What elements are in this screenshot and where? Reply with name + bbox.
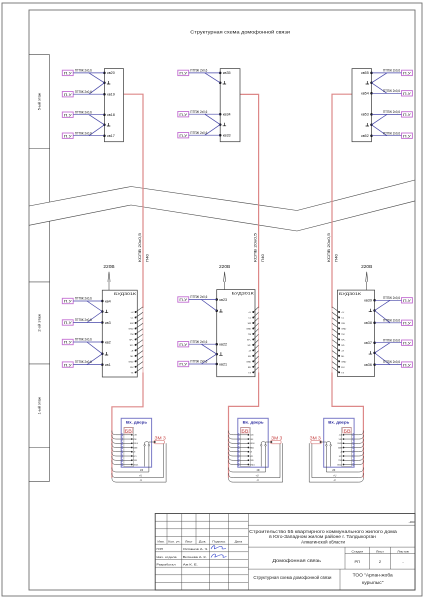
pin CL (252, 317, 254, 319)
wire 220В to БУД (366, 282, 368, 291)
pin MAN (131, 447, 133, 449)
wire П.У to line node (375, 299, 402, 301)
wire hop on box edge (238, 459, 239, 462)
commutation unit БУД301К левый (102, 290, 137, 377)
svg-text:ЗМ 3: ЗМ 3 (271, 435, 283, 440)
wire hop on box edge (353, 438, 354, 441)
wire pin to riser bundle (344, 448, 364, 452)
wire pin to riser bundle (344, 439, 364, 443)
pin SP+ (135, 338, 137, 340)
wire П.У to line node (189, 299, 217, 301)
wire П.У to ground node (89, 83, 104, 94)
svg-text:П.У: П.У (64, 72, 72, 76)
wire pin to riser (253, 345, 258, 350)
svg-text:SSD6: SSD6 (337, 443, 342, 445)
wire П.У to ground node (201, 344, 216, 354)
commutation unit БУД301К правый (337, 290, 374, 376)
wire hop on box edge (238, 442, 239, 445)
wire pin to riser bundle (112, 439, 132, 443)
svg-text:П.У: П.У (64, 134, 72, 138)
node кв37 (373, 341, 376, 344)
wire pin to riser (332, 323, 339, 328)
wire pin to riser (253, 329, 258, 334)
svg-text:Подпись: Подпись (212, 539, 226, 543)
svg-text:П.У: П.У (403, 134, 411, 138)
svg-text:+U: +U (341, 312, 344, 314)
pin TM (135, 333, 137, 335)
apartment terminal box кв33-35 (220, 69, 240, 142)
ground node (373, 309, 376, 312)
svg-text:кв54: кв54 (361, 92, 369, 96)
svg-text:GND: GND (246, 361, 251, 363)
wire hop on box edge (121, 438, 122, 441)
wire П.У to line node (372, 92, 402, 94)
wire П.У to line node (372, 113, 402, 115)
wire pin to riser bundle (229, 456, 249, 460)
wire hop on box edge (238, 463, 239, 466)
wire lock to sensor (149, 441, 155, 443)
pin SP- (135, 344, 137, 346)
svg-text:РП: РП (355, 559, 361, 564)
pin GND1 (343, 464, 345, 466)
svg-text:ПТПЖ 2х0,6: ПТПЖ 2х0,6 (75, 110, 92, 114)
apartment terminal box кв17-20 (104, 69, 123, 142)
svg-text:КСПВ 20х0,5: КСПВ 20х0,5 (254, 233, 258, 262)
pin GND (338, 360, 340, 362)
node кв55 (370, 72, 373, 75)
svg-text:TM: TM (341, 334, 344, 336)
svg-text:П40: П40 (261, 254, 265, 262)
wire pin to riser bundle (112, 431, 132, 435)
wire П.У to ground node (372, 114, 387, 124)
svg-text:П.У: П.У (64, 363, 72, 367)
pin GND (338, 327, 340, 329)
node кв33 (219, 134, 222, 137)
pin VSF (131, 438, 133, 440)
wire hop on box edge (353, 433, 354, 436)
wire pin to riser (332, 340, 339, 345)
svg-text:Лист: Лист (376, 550, 385, 554)
floor column bottom divider 5th floor (29, 148, 50, 150)
svg-text:ПТПЖ 2х0,6: ПТПЖ 2х0,6 (75, 90, 92, 94)
svg-text:GND: GND (129, 328, 134, 330)
pin SSD6 (343, 442, 345, 444)
handset П.У (кв52-55 #2) (402, 91, 413, 96)
svg-text:RU: RU (248, 367, 252, 369)
title block verticals (181, 514, 183, 591)
pin GND (135, 360, 137, 362)
wire П.У to ground node (87, 312, 102, 323)
svg-text:кв37: кв37 (364, 341, 372, 345)
floor column column bottom line (29, 480, 50, 482)
pin SP1 (343, 455, 345, 457)
call unit БВ outline (241, 427, 251, 466)
node кв23 (215, 298, 218, 301)
floor column bottom divider 1st floor (29, 447, 50, 449)
handset П.У (правый #1) (402, 298, 413, 303)
svg-text:П.У: П.У (403, 321, 411, 325)
svg-text:П.У: П.У (403, 72, 411, 76)
svg-text:ПТПЖ 2х0,6: ПТПЖ 2х0,6 (190, 131, 207, 135)
svg-text:кв55: кв55 (361, 71, 369, 75)
pin TMD (343, 459, 345, 461)
wire pin to riser bundle (344, 460, 364, 464)
power feed arrow (108, 272, 110, 282)
svg-text:SP1: SP1 (339, 456, 343, 458)
svg-text:TM: TM (130, 334, 133, 336)
svg-text:кв36: кв36 (364, 363, 372, 367)
wire hop on box edge (121, 463, 122, 466)
floor column top divider 2nd floor (29, 281, 50, 283)
wire -U (bundle to lock) (229, 443, 283, 482)
svg-text:ПТПЖ 2х0,6: ПТПЖ 2х0,6 (190, 110, 207, 114)
ground node (219, 123, 222, 126)
svg-text:ЗМ 3: ЗМ 3 (310, 435, 322, 440)
wire П.У to line node (73, 114, 104, 116)
svg-text:220В: 220В (361, 264, 372, 269)
wire П.У to ground node (205, 73, 220, 83)
node кв21 (215, 363, 218, 366)
organisation cell (339, 569, 341, 590)
wire П.У to line node (189, 343, 217, 345)
svg-text:П.У: П.У (403, 113, 411, 117)
svg-text:Домофонная связь: Домофонная связь (272, 558, 321, 564)
wire П.У to ground node (89, 73, 104, 83)
pin TMD (248, 459, 250, 461)
ground node (103, 124, 106, 127)
call unit БВ outline (124, 427, 134, 466)
svg-text:Лист: Лист (185, 539, 193, 543)
wire pin to riser bundle (229, 431, 249, 435)
svg-text:Структурная схема домофонной с: Структурная схема домофонной связи (253, 575, 331, 580)
node кв54 (370, 92, 373, 95)
signatures (211, 546, 226, 549)
wire П.У to line node (189, 134, 221, 136)
wire pin to riser bundle (112, 448, 132, 452)
power feed arrow (366, 272, 368, 282)
pin TX (338, 371, 340, 373)
commutation unit БУД301К средний (217, 290, 255, 377)
svg-text:SSD6: SSD6 (250, 443, 255, 445)
wire pin to riser (332, 345, 339, 350)
svg-text:+U: +U (131, 312, 134, 314)
wire П.У to ground node (375, 353, 390, 365)
svg-text:ПТПЖ 2х0,6: ПТПЖ 2х0,6 (383, 296, 400, 300)
wire pin to riser (253, 362, 258, 367)
svg-text:ПТПЖ 2х0,6: ПТПЖ 2х0,6 (190, 69, 207, 73)
handset П.У (кв33-35 #1) (178, 70, 189, 75)
svg-text:GND: GND (341, 361, 346, 363)
svg-text:+U: +U (333, 476, 336, 478)
wire hop on box edge (353, 450, 354, 453)
pin ML (338, 355, 340, 357)
wire П.У to ground node (201, 354, 216, 364)
svg-text:ПТПЖ 2х0,6: ПТПЖ 2х0,6 (383, 89, 400, 93)
door contact sensor (260, 445, 262, 447)
wire hop on box edge (238, 450, 239, 453)
pin CL (338, 317, 340, 319)
wire -U (bundle to lock) (309, 443, 363, 482)
handset П.У (левый #3) (62, 339, 73, 344)
svg-text:ЗМ 3: ЗМ 3 (155, 435, 167, 440)
ground node (215, 310, 218, 313)
svg-text:2Ф: 2Ф (257, 469, 260, 472)
wire pin to riser bundle (229, 448, 249, 452)
wire pin to riser bundle (344, 431, 364, 435)
svg-text:П.У: П.У (64, 113, 72, 117)
door contact sensor (144, 445, 146, 447)
riser 2 (КСПВ 20х0,5) middle stack (240, 94, 259, 308)
wire П.У to line node (73, 72, 104, 74)
handset П.У (кв17-20 #1) (62, 70, 73, 75)
wire pin to riser (136, 312, 143, 317)
wire П.У to ground node (372, 83, 387, 94)
break line upper (29, 180, 415, 211)
svg-text:ПТПЖ 2х0,6: ПТПЖ 2х0,6 (383, 131, 400, 135)
wire pin to riser (332, 318, 339, 323)
wire pin to riser (253, 340, 258, 345)
svg-text:SP1: SP1 (250, 456, 254, 458)
pin TX (135, 371, 137, 373)
svg-text:П.У: П.У (403, 363, 411, 367)
node кв3 (101, 321, 104, 324)
electromagnetic lock ЗМ 3 (271, 440, 282, 443)
svg-text:220В: 220В (103, 264, 114, 269)
pin SP1 (248, 455, 250, 457)
project description (248, 546, 415, 548)
pin +U (252, 311, 254, 313)
ground node (370, 124, 373, 127)
pin +UB (248, 434, 250, 436)
svg-text:MAN: MAN (338, 446, 343, 449)
wire pin to riser (136, 340, 143, 345)
wire П.У to line node (73, 135, 104, 137)
pin SP- (338, 344, 340, 346)
wire pin to riser (136, 367, 143, 372)
svg-text:ПТПЖ 2х0,6: ПТПЖ 2х0,6 (190, 295, 207, 299)
node кв1 (101, 363, 104, 366)
apartment terminal box кв52-55 (352, 69, 372, 142)
wire 220В to БУД (108, 282, 110, 291)
pin +E (135, 349, 137, 351)
pin TM (338, 333, 340, 335)
node кв4 (101, 300, 104, 303)
pin TM (252, 333, 254, 335)
svg-text:кв52: кв52 (361, 134, 369, 138)
svg-text:GND: GND (246, 328, 251, 330)
svg-text:ПТПЖ 2х0,6: ПТПЖ 2х0,6 (75, 360, 92, 364)
floor column top divider 5th floor (29, 54, 50, 56)
ground node (219, 82, 222, 85)
svg-text:SP+: SP+ (129, 339, 134, 341)
wire pin to riser (253, 312, 258, 317)
pin +UB (131, 434, 133, 436)
wire pin to riser bundle (344, 435, 364, 439)
title block outline (155, 514, 415, 591)
handset П.У (правый #4) (402, 362, 413, 367)
svg-text:БВ: БВ (241, 428, 248, 433)
node кв22 (215, 343, 218, 346)
node кв17 (103, 134, 106, 137)
svg-text:П40: П40 (335, 254, 339, 262)
pin VSF (343, 438, 345, 440)
handset П.У (кв33-35 #3) (178, 133, 189, 138)
electromagnetic lock ЗМ 3 (311, 440, 322, 443)
svg-text:БУД301К: БУД301К (232, 291, 255, 296)
pin MAN (343, 447, 345, 449)
wire hop on box edge (238, 433, 239, 436)
ground node (103, 82, 106, 85)
wire pin to riser (136, 356, 143, 361)
svg-text:+U: +U (248, 312, 251, 314)
wire 2Ф (bundle to sensor) (112, 446, 149, 472)
pin SP+ (338, 338, 340, 340)
svg-text:TMD: TMD (338, 460, 343, 462)
handset П.У (правый #3) (402, 340, 413, 345)
svg-text:БВ: БВ (344, 428, 351, 433)
break line lower (29, 201, 415, 231)
svg-text:SP+: SP+ (247, 339, 252, 341)
svg-text:ПТПЖ 2х0,6: ПТПЖ 2х0,6 (383, 318, 400, 322)
svg-text:1-ый этаж: 1-ый этаж (38, 396, 42, 414)
svg-text:кв38: кв38 (364, 321, 372, 325)
svg-text:-сс: -сс (409, 520, 416, 524)
svg-text:GND1: GND1 (337, 464, 342, 466)
svg-text:ТОО "Арлан-жоба: ТОО "Арлан-жоба (353, 572, 394, 577)
svg-text:Вх. дверь: Вх. дверь (328, 419, 350, 424)
door contact sensor (330, 445, 332, 447)
svg-text:ПТПЖ 2х0,6: ПТПЖ 2х0,6 (75, 297, 92, 301)
call unit БВ label box (241, 428, 249, 433)
wire П.У to line node (73, 364, 102, 366)
svg-text:в Юго-Западном жилом районе г.: в Юго-Западном жилом районе г. Талдыкорг… (269, 533, 376, 539)
svg-text:Структурная схема домофонной с: Структурная схема домофонной связи (190, 29, 290, 35)
wire pin to riser (332, 329, 339, 334)
floor column right edge (lower segment) (49, 221, 51, 481)
svg-text:кв21: кв21 (219, 362, 227, 366)
wire pin to riser (136, 318, 143, 323)
svg-text:220В: 220В (219, 264, 230, 269)
wire hop on box edge (353, 446, 354, 449)
handset П.У (кв52-55 #1) (402, 70, 413, 75)
pin RU (252, 366, 254, 368)
wire pin to riser (136, 334, 143, 339)
node кв2 (101, 341, 104, 344)
svg-text:П.У: П.У (179, 72, 187, 76)
code row -cc (248, 524, 415, 526)
wire П.У to line node (375, 342, 402, 344)
svg-text:П.У: П.У (64, 300, 72, 304)
wire pin to riser (253, 351, 258, 356)
wire -U (bundle to lock) (112, 443, 166, 482)
wire П.У to ground node (87, 301, 102, 312)
wire hop on box edge (353, 442, 354, 445)
entrance door unit box (подъезд 3) (324, 418, 354, 467)
svg-text:Битеева А. К.: Битеева А. К. (183, 555, 207, 559)
wire sensor to БВ bottom (144, 446, 146, 466)
node кв35 (219, 72, 222, 75)
svg-text:П.У: П.У (64, 93, 72, 97)
wire pin to riser (136, 323, 143, 328)
wire hop on box edge (238, 446, 239, 449)
wire hop on box edge (121, 450, 122, 453)
svg-text:Строительство 55 квартирного к: Строительство 55 квартирного коммунально… (249, 529, 397, 534)
wire lock to sensor (321, 441, 327, 443)
wire П.У to ground node (201, 300, 216, 311)
svg-text:TM: TM (248, 334, 251, 336)
wire pin to riser (136, 351, 143, 356)
wire П.У to line node (73, 300, 102, 302)
pin VSF (248, 438, 250, 440)
wire П.У to line node (372, 72, 402, 74)
riser 1 (КСПВ 20х0,5) left stack (124, 94, 144, 308)
svg-text:кв53: кв53 (361, 113, 369, 117)
wire pin to riser (253, 356, 258, 361)
pin TMD (131, 459, 133, 461)
wire pin to riser (136, 329, 143, 334)
wire pin to riser (332, 334, 339, 339)
pin +E (343, 451, 345, 453)
pin SP1 (131, 455, 133, 457)
svg-text:П.У: П.У (64, 341, 72, 345)
handset П.У (кв17-20 #3) (62, 112, 73, 117)
wire П.У to ground node (375, 300, 390, 310)
entrance door unit box (подъезд 2) (238, 418, 268, 467)
svg-text:П.У: П.У (179, 113, 187, 117)
wire pin to riser bundle (112, 456, 132, 460)
wire П.У to ground node (89, 125, 104, 136)
call unit БВ outline (342, 427, 352, 466)
pin +E (338, 349, 340, 351)
ground node (101, 310, 104, 313)
handset П.У (средний #3) (178, 361, 189, 366)
handset П.У (кв17-20 #2) (62, 92, 73, 97)
wire pin to riser bundle (344, 452, 364, 456)
svg-text:П.У: П.У (179, 363, 187, 367)
node кв52 (370, 134, 373, 137)
svg-text:П.У: П.У (64, 321, 72, 325)
svg-text:Алматинской области: Алматинской области (301, 539, 345, 545)
svg-text:КСПВ 20х0,5: КСПВ 20х0,5 (138, 233, 142, 262)
wire П.У to line node (372, 135, 402, 137)
title block revision rows (155, 520, 248, 522)
pin GND (252, 360, 254, 362)
wire pin to riser (136, 307, 143, 312)
wire lock to sensor (266, 441, 272, 443)
pin ML (135, 355, 137, 357)
svg-text:кв17: кв17 (107, 134, 115, 138)
electromagnetic lock ЗМ 3 (154, 440, 165, 443)
wire П.У to ground node (375, 311, 390, 323)
svg-text:кв20: кв20 (107, 71, 115, 75)
wire pin to riser (253, 334, 258, 339)
pin +E (248, 451, 250, 453)
wire pin to riser (253, 307, 258, 312)
svg-text:MAN: MAN (133, 446, 138, 449)
svg-text:П.У: П.У (179, 298, 187, 302)
pin TX (252, 371, 254, 373)
handset П.У (кв33-35 #2) (178, 112, 189, 117)
wire pin to riser bundle (112, 435, 132, 439)
handset П.У (левый #2) (62, 320, 73, 325)
pin GND1 (131, 464, 133, 466)
pin +U (338, 311, 340, 313)
wire pin to riser (332, 312, 339, 317)
svg-text:П.У: П.У (403, 299, 411, 303)
pin GND1 (248, 464, 250, 466)
ground node (215, 353, 218, 356)
svg-text:кв18: кв18 (107, 113, 115, 117)
